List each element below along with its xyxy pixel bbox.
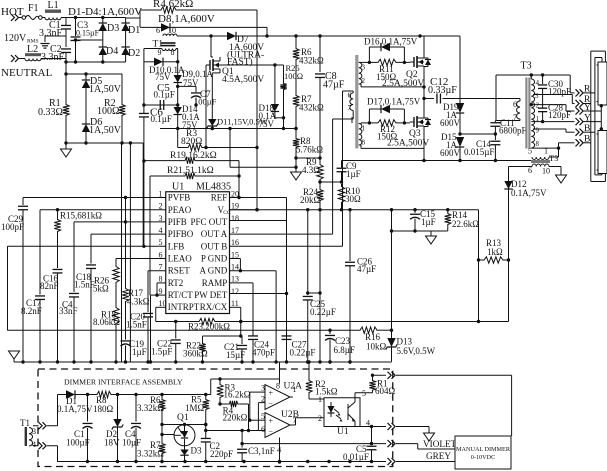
wire bridge AC node <box>74 38 103 41</box>
wire Q1 drain <box>211 36 213 57</box>
wire pin15 P GND <box>230 259 243 273</box>
svg-text:RX/CX: RX/CX <box>200 302 228 312</box>
diode D1 <box>121 18 140 41</box>
label 120Vrms <box>4 33 39 45</box>
svg-text:7: 7 <box>159 263 163 272</box>
wire Q2 drain <box>423 36 425 58</box>
fuse F1 <box>22 3 42 20</box>
ground <box>291 167 302 180</box>
wire pin17 OUT A <box>230 111 354 235</box>
resistor R26 <box>93 259 119 294</box>
wire Q1 drive node <box>220 63 284 66</box>
svg-text:0.15µF: 0.15µF <box>76 29 100 38</box>
svg-text:8: 8 <box>362 139 366 147</box>
node NEUTRAL terminal <box>1 55 53 79</box>
op-amp U2B <box>261 410 299 438</box>
svg-text:8: 8 <box>536 140 540 148</box>
connector out 3 <box>388 440 396 447</box>
resistor R15 <box>54 210 102 234</box>
diode D5 <box>82 74 122 124</box>
wire opto pin5 <box>355 393 373 398</box>
connector B lower <box>576 135 591 147</box>
svg-text:7: 7 <box>348 103 352 112</box>
svg-text:Q3: Q3 <box>409 129 421 139</box>
resistor R5 dimmer <box>185 395 209 427</box>
svg-text:100pF: 100pF <box>1 222 24 232</box>
svg-text:PEAO: PEAO <box>168 205 192 215</box>
opto LED <box>328 402 343 422</box>
svg-text:T1: T1 <box>20 418 30 428</box>
svg-text:0.015µF: 0.015µF <box>464 147 494 157</box>
inductor L2 <box>25 44 41 61</box>
wire pin3 to R <box>533 95 575 104</box>
label R1 <box>375 379 396 397</box>
svg-text:3.3nF: 3.3nF <box>39 28 63 39</box>
wire aux gnd <box>549 167 561 176</box>
wire pin6 LEAO <box>116 258 166 260</box>
svg-text:1.5nF: 1.5nF <box>126 320 147 330</box>
wire Q1 gate <box>204 65 207 149</box>
wire <box>508 260 510 322</box>
resistor R8 <box>293 136 323 155</box>
capacitor C16 <box>40 234 63 362</box>
resistor R16 <box>358 327 387 352</box>
wire opto pin1 <box>309 398 324 400</box>
svg-text:0.33Ω: 0.33Ω <box>38 107 63 118</box>
wire R links <box>584 93 595 104</box>
inductor L1 <box>45 0 61 20</box>
diode D10 <box>144 58 185 82</box>
wire right loop <box>477 210 480 323</box>
svg-text:100Ω: 100Ω <box>284 71 303 81</box>
connector to dimmer upper <box>39 422 47 429</box>
resistor R23 <box>188 318 230 331</box>
svg-text:Q1: Q1 <box>177 413 189 423</box>
wire lamp inner <box>595 58 602 175</box>
transistor Q1 dimmer <box>174 413 195 450</box>
svg-text:360kΩ: 360kΩ <box>183 349 208 359</box>
ground <box>426 236 437 244</box>
svg-text:OUT B: OUT B <box>201 241 228 251</box>
svg-text:LFB: LFB <box>168 241 185 251</box>
transformer T1 secondary <box>158 48 177 57</box>
svg-text:0.1µF: 0.1µF <box>154 90 175 100</box>
capacitor C3 <box>71 18 100 63</box>
node HOT input terminal <box>1 6 24 21</box>
svg-text:18: 18 <box>231 214 239 223</box>
wire feed <box>211 379 280 395</box>
wire VIOLET <box>396 439 457 449</box>
svg-text:8.2nF: 8.2nF <box>21 306 42 316</box>
svg-text:5.6V,0.5W: 5.6V,0.5W <box>397 346 436 356</box>
wire bridge + output <box>126 17 140 19</box>
wire <box>149 176 151 295</box>
wire Vcc rail <box>230 208 479 211</box>
wire analog ground bus <box>14 360 392 363</box>
svg-text:L1: L1 <box>48 0 59 11</box>
svg-text:U1: U1 <box>172 182 184 193</box>
wire <box>296 156 322 159</box>
wire pin2 PEAO <box>40 208 166 211</box>
wire <box>142 143 144 246</box>
transformer T2 sec upper <box>359 62 366 85</box>
wire Y links <box>584 104 604 131</box>
wire GREY <box>396 451 455 462</box>
svg-text:RT2: RT2 <box>168 278 183 288</box>
box MANUAL DIMMER <box>455 436 511 469</box>
svg-text:0.1A,75V: 0.1A,75V <box>511 188 547 198</box>
capacitor C18 <box>74 234 96 362</box>
svg-text:PIFB: PIFB <box>168 217 187 227</box>
svg-text:600V: 600V <box>440 148 461 158</box>
wire dim out top <box>373 374 387 376</box>
resistor R18 <box>93 285 120 362</box>
diode Q3 body <box>424 118 431 127</box>
svg-text:47µF: 47µF <box>357 264 376 274</box>
wire Vcc vertical <box>255 10 258 211</box>
svg-text:R23,200kΩ: R23,200kΩ <box>188 322 230 332</box>
svg-text:22.6kΩ: 22.6kΩ <box>452 219 479 229</box>
svg-text:6.8µF: 6.8µF <box>334 345 355 355</box>
resistor R2 <box>97 74 125 143</box>
svg-text:0.01µF: 0.01µF <box>343 452 369 462</box>
svg-text:ML4835: ML4835 <box>196 182 231 193</box>
label D1-D4 <box>68 6 142 18</box>
mosfet Q3 <box>387 114 429 149</box>
svg-text:1A,50V: 1A,50V <box>89 84 122 95</box>
wire aux right <box>549 148 559 157</box>
wire <box>33 395 58 426</box>
svg-text:0.22µF: 0.22µF <box>290 348 316 358</box>
svg-text:1µF: 1µF <box>132 347 147 357</box>
capacitor C1 dimmer <box>66 395 93 463</box>
capacitor C19 <box>121 304 147 362</box>
wire <box>294 150 297 169</box>
ground <box>9 351 20 362</box>
label D17 <box>367 97 421 107</box>
svg-text:6: 6 <box>261 425 265 434</box>
svg-text:5: 5 <box>362 389 366 398</box>
capacitor C29 <box>1 198 28 363</box>
wire bottom rail <box>342 159 532 162</box>
svg-text:CC: CC <box>223 210 231 216</box>
svg-text:8.06kΩ: 8.06kΩ <box>93 317 120 327</box>
ground <box>424 433 435 441</box>
wire <box>42 17 45 19</box>
wire T3 top <box>496 73 570 120</box>
connector out 2 <box>388 423 396 430</box>
svg-text:1µF: 1µF <box>421 217 436 227</box>
connector B upper <box>576 124 591 136</box>
transformer T3 aux <box>528 147 558 176</box>
resistor R7 <box>293 62 324 113</box>
svg-text:6: 6 <box>528 166 532 175</box>
svg-text:12: 12 <box>231 287 239 296</box>
wire U2A pin8 <box>279 362 281 384</box>
wire <box>308 292 320 294</box>
resistor R1 dimmer <box>369 374 375 393</box>
svg-text:7: 7 <box>513 113 517 122</box>
wire <box>390 229 448 236</box>
svg-text:3: 3 <box>261 384 265 393</box>
svg-text:3: 3 <box>32 427 36 436</box>
svg-text:PVFB: PVFB <box>168 193 191 203</box>
connector out 1 <box>388 372 396 379</box>
svg-text:14: 14 <box>231 263 239 272</box>
capacitor C14 <box>464 134 500 162</box>
wire <box>139 10 141 27</box>
svg-text:U1: U1 <box>337 427 349 437</box>
diode D4 <box>99 40 119 62</box>
wire pin16 OUT B <box>230 245 343 247</box>
svg-text:PFC OUT: PFC OUT <box>191 217 228 227</box>
wire <box>178 85 196 87</box>
wire <box>65 53 67 63</box>
svg-text:100Ω: 100Ω <box>97 106 119 117</box>
svg-text:1: 1 <box>362 125 366 133</box>
svg-text:100µF: 100µF <box>66 438 90 448</box>
svg-text:4.3kΩ: 4.3kΩ <box>127 297 150 307</box>
wire <box>7 246 9 330</box>
svg-text:D3: D3 <box>107 23 119 34</box>
wire <box>359 84 424 87</box>
svg-text:C3,1nF: C3,1nF <box>248 446 275 456</box>
svg-text:RSET: RSET <box>168 266 191 276</box>
svg-text:30Ω: 30Ω <box>345 194 361 204</box>
ground <box>61 149 72 157</box>
resistor R1 <box>38 74 69 143</box>
diode D1 dimmer <box>57 390 211 414</box>
svg-text:82nF: 82nF <box>40 281 59 291</box>
diode D3 dimmer <box>180 446 202 462</box>
wire pin11 RX/CX <box>230 307 243 337</box>
svg-text:33nF: 33nF <box>59 306 78 316</box>
wire pin9 to B <box>533 129 575 132</box>
mosfet Q2 <box>382 54 424 89</box>
wire Q3 drain <box>423 99 425 119</box>
svg-text:9: 9 <box>159 287 163 296</box>
wire <box>318 203 321 362</box>
wire <box>460 132 497 135</box>
resistor R7 dimmer <box>137 440 165 462</box>
svg-text:9: 9 <box>536 127 540 135</box>
svg-text:1A,50V: 1A,50V <box>89 125 122 136</box>
svg-text:18V: 18V <box>104 438 120 448</box>
lamp tube 2 <box>597 131 607 174</box>
diode D6 <box>82 117 122 143</box>
wire <box>86 393 208 396</box>
resistor R2 dimmer <box>306 360 338 399</box>
wire to ground <box>45 36 66 42</box>
connector Y upper <box>576 103 592 115</box>
capacitor C9 <box>337 161 361 183</box>
capacitor C5 dimmer <box>343 427 377 464</box>
wire <box>320 180 343 183</box>
wire <box>564 91 566 93</box>
transformer T1 aux winding <box>20 418 36 449</box>
wire long vertical <box>129 143 131 362</box>
connector R lower <box>576 95 592 107</box>
svg-text:1µF: 1µF <box>346 169 361 179</box>
transformer T2 pri <box>348 91 354 113</box>
svg-text:220pF: 220pF <box>210 449 233 459</box>
diode D8 <box>140 13 269 38</box>
svg-text:6: 6 <box>156 26 160 35</box>
wire pin8 RT2 <box>157 283 166 295</box>
svg-text:10µF: 10µF <box>122 438 141 448</box>
capacitor C1 <box>39 20 71 39</box>
diode D17 <box>369 105 404 123</box>
svg-text:RAMP: RAMP <box>202 278 228 288</box>
connector out 4 <box>388 458 396 465</box>
wire lamp outer <box>591 51 606 181</box>
resistor R19 <box>144 151 239 164</box>
svg-text:6800pF: 6800pF <box>499 126 527 136</box>
svg-text:75V: 75V <box>155 72 171 82</box>
svg-text:MANUAL DIMMER: MANUAL DIMMER <box>456 446 511 453</box>
svg-text:4.5A,500V: 4.5A,500V <box>222 75 264 85</box>
resistor R17 <box>122 198 149 307</box>
svg-text:INTRPT: INTRPT <box>168 302 200 312</box>
resistor R4 U2 <box>220 401 249 431</box>
svg-text:4: 4 <box>536 79 540 87</box>
svg-text:5: 5 <box>261 412 265 421</box>
resistor R13 <box>479 238 511 263</box>
transformer T3 label <box>521 61 532 72</box>
svg-text:2: 2 <box>261 395 265 404</box>
svg-text:1kΩ: 1kΩ <box>487 247 503 257</box>
diode Q2 body <box>424 58 431 67</box>
label D16 <box>364 37 418 47</box>
capacitor C24 <box>248 336 275 358</box>
svg-text:PIFBO: PIFBO <box>168 229 194 239</box>
capacitor C28 <box>538 103 571 124</box>
wire <box>65 62 67 74</box>
svg-text:1: 1 <box>544 147 548 156</box>
svg-text:T3: T3 <box>549 153 558 163</box>
diode D16 <box>369 43 404 63</box>
diode D19 <box>440 102 464 136</box>
wire U2B out to opto <box>290 418 324 425</box>
wire lower node <box>64 141 143 144</box>
resistor R6 dimmer <box>137 395 165 442</box>
svg-text:D3: D3 <box>191 446 202 456</box>
optocoupler U1 dimmer <box>318 389 370 437</box>
wire Q1 base <box>162 434 175 436</box>
wire pin1 PVFB <box>23 196 166 199</box>
wire top bus corner <box>459 36 461 103</box>
wire pin18 PFC OUT <box>230 198 289 364</box>
wire PFC bus <box>177 34 460 37</box>
svg-text:10kΩ: 10kΩ <box>366 342 387 352</box>
wire pin19 Vcc stub <box>230 209 258 211</box>
svg-text:−: − <box>269 427 274 436</box>
diode D18 <box>259 65 284 129</box>
wire pin6 row <box>204 423 265 432</box>
resistor R8 dimmer <box>93 391 114 414</box>
wire node <box>64 72 122 75</box>
diode D2 <box>121 40 140 62</box>
wire Q3 source loop <box>359 130 424 161</box>
svg-text:600V: 600V <box>440 118 461 128</box>
svg-text:P GND: P GND <box>201 254 228 264</box>
wire <box>65 18 67 26</box>
wire <box>396 375 512 436</box>
wire C5 top rail <box>240 442 386 445</box>
svg-text:820Ω: 820Ω <box>181 137 202 147</box>
capacitor C8 <box>315 36 345 158</box>
svg-text:5.76kΩ: 5.76kΩ <box>296 145 323 155</box>
capacitor C17 <box>21 210 45 362</box>
svg-text:4.3Ω: 4.3Ω <box>302 165 320 175</box>
capacitor C30 <box>538 75 571 108</box>
wire REF vertical <box>237 161 240 200</box>
capacitor C15 <box>410 209 436 231</box>
lamp tube 1 <box>597 62 607 105</box>
capacitor C12 <box>424 76 520 104</box>
ground <box>41 44 50 49</box>
wire pin14 A GND <box>230 271 278 364</box>
svg-text:FAST): FAST) <box>227 57 253 68</box>
wire pin1 to Y <box>531 121 574 123</box>
svg-text:DIMMER INTERFACE ASSEMBLY: DIMMER INTERFACE ASSEMBLY <box>64 378 183 387</box>
wire <box>65 143 67 149</box>
wire B links <box>584 132 595 143</box>
svg-text:11: 11 <box>231 299 239 308</box>
wire aux left <box>509 167 533 182</box>
capacitor C3 dimmer <box>237 431 275 463</box>
svg-text:3: 3 <box>362 64 366 72</box>
wire long line LFB <box>8 329 394 332</box>
svg-text:3.32kΩ: 3.32kΩ <box>137 449 164 459</box>
capacitor C25 <box>303 210 336 364</box>
svg-text:13: 13 <box>231 275 239 284</box>
wire <box>351 117 353 123</box>
capacitor C4 <box>59 222 79 362</box>
svg-text:10: 10 <box>159 299 167 308</box>
svg-text:1MΩ: 1MΩ <box>185 403 205 413</box>
wire violet arrow <box>396 427 429 434</box>
op-amp IC U1 ML4835 <box>159 182 240 314</box>
wire pin4 PIFBO <box>91 233 166 235</box>
capacitor C6 <box>139 103 180 124</box>
resistor R3 <box>178 129 257 151</box>
wire <box>359 61 361 63</box>
wire pin10 INTRPT <box>156 307 509 323</box>
capacitor C20 <box>126 271 153 362</box>
label DIMMER INTERFACE ASSEMBLY <box>64 378 183 387</box>
transformer T2 core <box>355 55 358 148</box>
resistor R9 <box>302 157 323 184</box>
capacitor C2 dimmer <box>201 425 233 463</box>
svg-text:F1: F1 <box>28 3 39 14</box>
wire <box>203 335 241 337</box>
wire long vertical <box>121 143 123 362</box>
transformer T1 core <box>153 40 176 50</box>
capacitor C11 <box>490 118 526 136</box>
wire pin2 to Y <box>530 103 575 111</box>
svg-text:D16,0.1A,75V: D16,0.1A,75V <box>364 37 418 47</box>
wire <box>359 122 361 125</box>
svg-text:GREY: GREY <box>426 451 451 461</box>
capacitor C27 <box>281 333 315 358</box>
svg-text:47µF: 47µF <box>323 80 345 91</box>
capacitor C23 <box>325 330 355 363</box>
transformer T3 sec <box>531 79 539 148</box>
resistor R12 <box>361 120 410 142</box>
svg-text:RT/CT: RT/CT <box>168 290 193 300</box>
wire top AC rail <box>61 16 126 19</box>
